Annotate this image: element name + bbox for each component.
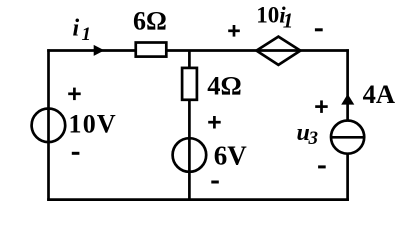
svg-text:4A: 4A [363, 79, 395, 109]
current source IS 4A (circle with bar) [331, 121, 364, 154]
wire right [346, 49, 349, 201]
voltage source US2 6V [173, 138, 207, 172]
svg-text:i: i [73, 15, 80, 41]
minus sign of 10V [72, 152, 80, 155]
plus sign of 6V [208, 116, 221, 129]
minus sign of 6V [211, 181, 219, 184]
svg-text:1: 1 [82, 24, 92, 45]
minus sign of u3 [318, 165, 326, 168]
svg-text:1: 1 [283, 9, 294, 33]
wire bottom [47, 198, 349, 201]
current arrow 4A on right wire [341, 94, 354, 105]
label i1 [73, 15, 92, 45]
minus sign of dependent source [315, 28, 323, 31]
svg-text:6V: 6V [214, 140, 248, 170]
wire top [47, 49, 349, 52]
svg-text:3: 3 [308, 128, 319, 149]
current arrow i1 on top wire [94, 45, 105, 56]
resistor R2 4ohm [182, 68, 197, 100]
resistor R1 6ohm [136, 43, 167, 57]
svg-text:4Ω: 4Ω [207, 71, 241, 101]
wire middle branch [188, 51, 191, 200]
plus sign of u3 [315, 100, 328, 113]
svg-text:10i: 10i [256, 2, 286, 27]
wire left [47, 49, 50, 201]
svg-text:6Ω: 6Ω [133, 6, 167, 35]
voltage source US1 10V [32, 109, 66, 143]
plus sign of 10V [68, 88, 81, 101]
label u3 [297, 120, 319, 149]
label 10i1 [256, 2, 293, 32]
svg-text:10V: 10V [69, 110, 117, 139]
plus sign of dependent source [228, 25, 240, 37]
dependent source 10i1 (diamond) [256, 37, 300, 65]
